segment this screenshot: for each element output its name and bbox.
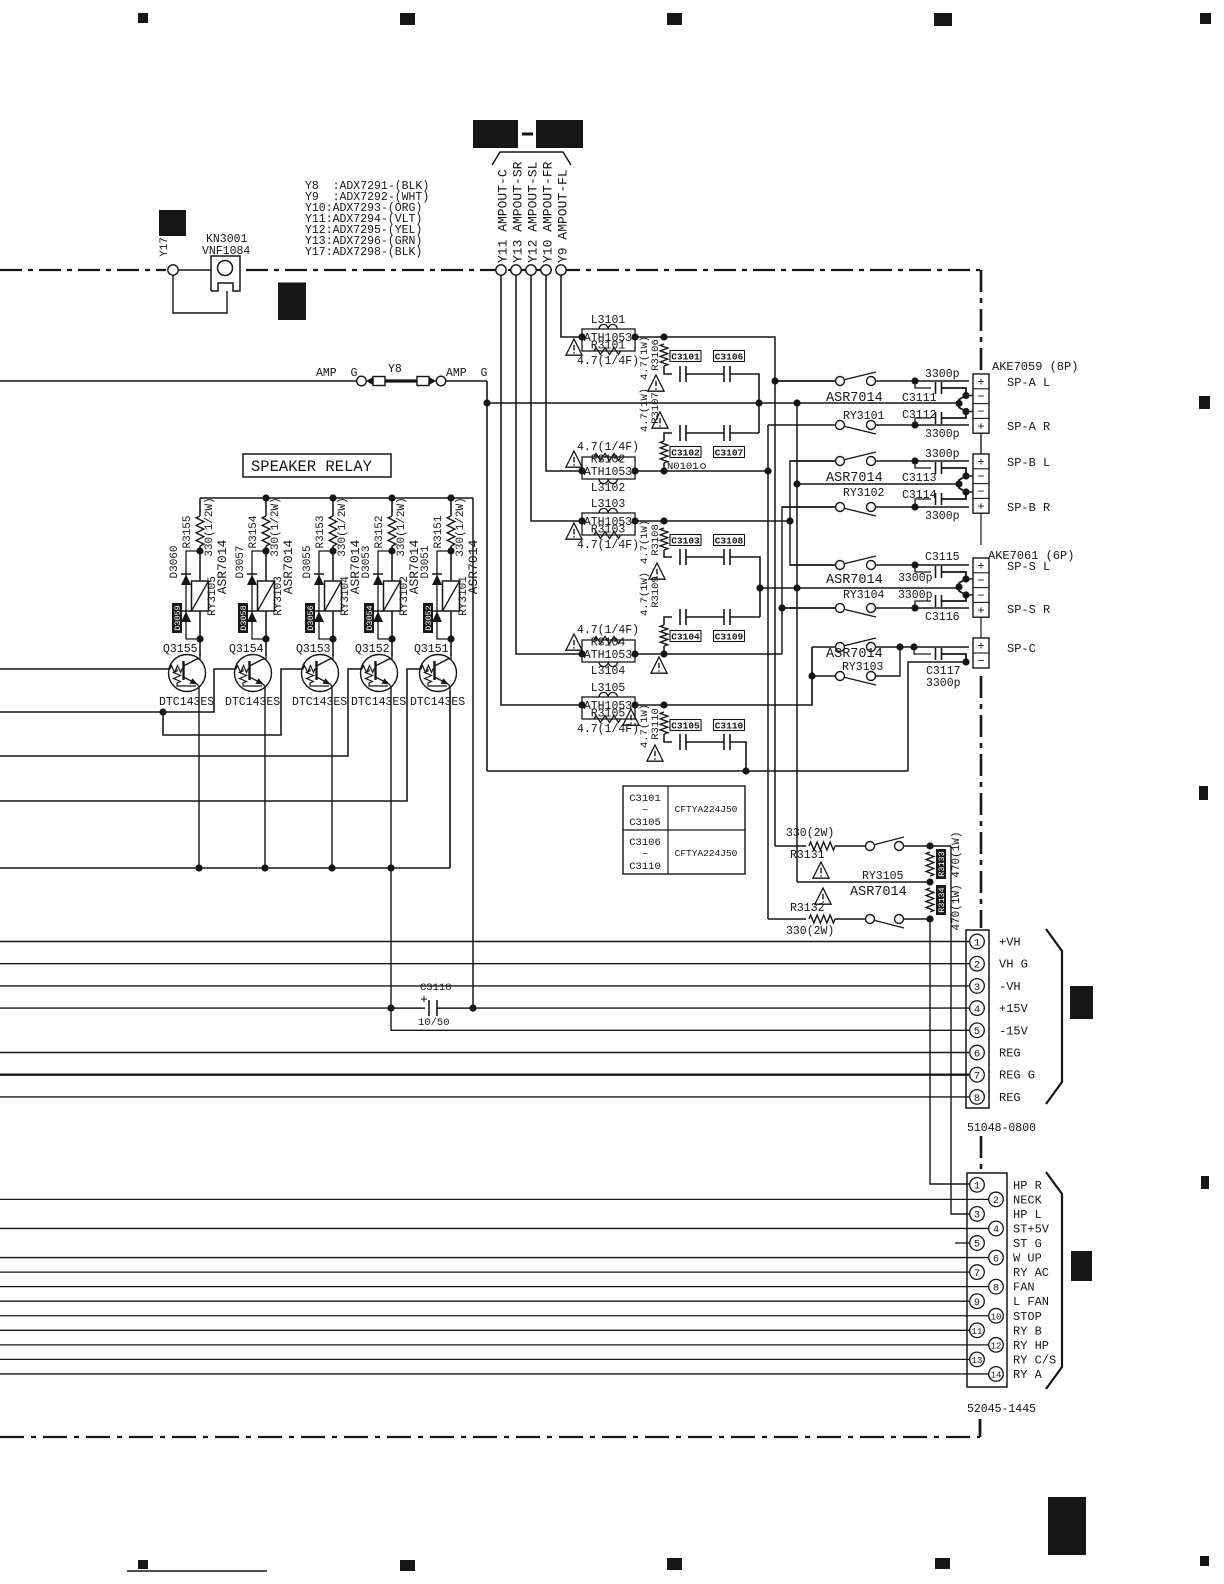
wire coil to collector Q3154	[265, 611, 267, 656]
registration mark bottom 4	[935, 1558, 950, 1569]
svg-text:D3052: D3052	[424, 605, 434, 631]
svg-text:Y10 AMPOUT-FR: Y10 AMPOUT-FR	[541, 161, 556, 263]
svg-text:4: 4	[993, 1225, 999, 1236]
svg-text:Y17: Y17	[159, 237, 171, 257]
capacitor C3117 hook	[914, 647, 931, 654]
relay switch RY3104 SP-S L	[790, 556, 969, 570]
wire HP R bus down	[930, 919, 969, 1184]
relay coil RY3105	[192, 581, 209, 611]
svg-text:L3103: L3103	[591, 498, 626, 511]
hook capacitors C3115 C3116	[915, 565, 931, 572]
svg-text:~: ~	[642, 805, 648, 817]
wire VH G	[0, 963, 969, 965]
junction SP-B feed tap	[786, 517, 793, 524]
black box bottom right	[1048, 1497, 1086, 1555]
label R3134 inverse	[936, 885, 947, 915]
transistor Q3155 DTC143ES	[169, 655, 206, 692]
svg-text:C3105: C3105	[671, 720, 700, 731]
warning triangle combo 4	[566, 634, 582, 650]
svg-text:C3110: C3110	[715, 720, 744, 731]
registration mark right 3	[1201, 1176, 1209, 1189]
svg-text:11: 11	[972, 1327, 983, 1337]
junction relay common SP-S x797	[793, 584, 800, 591]
black box right B	[1071, 1251, 1092, 1281]
transistor Q3153 DTC143ES	[302, 655, 339, 692]
wire STOP	[0, 1315, 989, 1317]
svg-text:C3113: C3113	[902, 472, 937, 485]
svg-text:C3108: C3108	[715, 535, 744, 546]
svg-text:AMP G: AMP G	[446, 367, 488, 380]
svg-text:−: −	[977, 485, 984, 499]
svg-text:C3106: C3106	[629, 837, 661, 849]
junction base branch	[159, 708, 166, 715]
junction R3152 bottom	[388, 547, 395, 554]
svg-text:3300p: 3300p	[925, 368, 960, 381]
wire R3109 to caps	[664, 617, 672, 625]
node right combo 2	[631, 467, 638, 474]
resistor R3110 4.7(1W)	[660, 712, 668, 734]
pin 4 circle 52045	[989, 1221, 1004, 1236]
wire AMPOUT drop 531	[531, 275, 582, 521]
svg-text:1: 1	[974, 1182, 980, 1193]
pin 7 circle 51048	[970, 1067, 985, 1082]
warning triangle R3132	[815, 888, 831, 904]
diode D3056	[314, 611, 324, 622]
registration mark bottom 1	[138, 1560, 148, 1569]
wire AMP G from left edge	[0, 380, 357, 382]
diode D3058	[247, 611, 257, 622]
wire base Q3151	[0, 669, 421, 801]
junction R3134 bottom	[926, 915, 933, 922]
svg-text:D3051: D3051	[420, 545, 432, 578]
svg-text:REG: REG	[999, 1047, 1021, 1061]
warning triangle combo 1	[566, 339, 582, 355]
pin 12 circle 52045	[989, 1338, 1004, 1353]
svg-text:C3112: C3112	[902, 409, 937, 422]
capacitor C3106	[724, 366, 730, 382]
svg-text:13: 13	[972, 1356, 983, 1366]
wire N0101 to SP-A R and R3132	[767, 425, 769, 471]
transistor Q3154 DTC143ES	[235, 655, 272, 692]
label R3133 inverse	[936, 849, 947, 879]
wire W UP	[0, 1257, 989, 1259]
svg-text:SP-B L: SP-B L	[1007, 456, 1050, 470]
wire R3106 to caps	[664, 366, 672, 374]
svg-text:Q3153: Q3153	[296, 643, 331, 656]
svg-text:−: −	[977, 390, 984, 404]
wire connector link S-C	[980, 617, 982, 638]
svg-text:330(2W): 330(2W)	[786, 827, 834, 840]
svg-text:DTC143ES: DTC143ES	[410, 696, 465, 709]
junction R3154 bottom	[262, 547, 269, 554]
svg-text:3: 3	[974, 982, 980, 994]
border right segment 2	[980, 676, 983, 928]
node circle AMP G left	[357, 376, 367, 386]
svg-text:W UP: W UP	[1013, 1252, 1042, 1266]
warning triangle R3131	[813, 862, 829, 878]
capacitor C3108	[724, 549, 730, 565]
wire collector stub Q3155	[199, 654, 201, 660]
pin 8 circle 52045	[989, 1279, 1004, 1294]
svg-text:R3110: R3110	[650, 708, 662, 740]
registration mark top 1	[138, 13, 148, 23]
relay switch RY3103 SP-C top	[812, 638, 969, 652]
connector pin circle Y9	[556, 265, 566, 275]
junction emitter common Q3153	[328, 864, 335, 871]
svg-text:+: +	[977, 375, 984, 389]
svg-text:C3116: C3116	[925, 611, 960, 624]
wire caps3 to common	[730, 557, 760, 617]
wire base Q3153	[163, 669, 303, 735]
svg-text:D3058: D3058	[239, 605, 249, 631]
wire diode branch D3051	[437, 551, 451, 639]
junction relay common SP-B x797	[793, 480, 800, 487]
wire AMPOUT drop 501	[501, 275, 582, 705]
hook capacitors C3113 C3114	[915, 461, 931, 468]
junction C3118 right	[469, 1005, 476, 1012]
junction R3153 bottom	[329, 547, 336, 554]
registration mark right 1	[1199, 396, 1210, 409]
resistor R3132 330(2W)	[809, 915, 835, 923]
part KN3001 circle	[218, 261, 233, 276]
svg-text:AMP G: AMP G	[316, 367, 358, 380]
relay switch RY3103 SP-C bottom	[812, 647, 900, 685]
registration mark top 3	[667, 13, 682, 25]
resistor R3153 330(1/2W)	[329, 516, 337, 546]
svg-text:ASR7014: ASR7014	[826, 573, 883, 588]
border right segment 3	[980, 1136, 983, 1171]
bottom left rule	[127, 1570, 267, 1572]
svg-text:L3105: L3105	[591, 682, 626, 695]
svg-text:10/50: 10/50	[418, 1017, 450, 1029]
wire relay rail to +15V net	[472, 498, 474, 1008]
junction R3109 tap	[660, 650, 667, 657]
warning triangle combo 2	[566, 451, 582, 467]
label D3054 inverse	[364, 603, 375, 633]
wire relay common SP-A	[487, 402, 959, 404]
svg-text:C3102: C3102	[671, 447, 700, 458]
wire collector stub Q3152	[391, 654, 393, 660]
wire connector link A-B	[980, 433, 982, 454]
wire emitter Q3153	[331, 687, 333, 868]
svg-text:D3053: D3053	[361, 545, 373, 578]
resistor R3108 4.7(1W)	[660, 528, 668, 550]
wire connector link B-S	[980, 513, 982, 545]
svg-text:C3104: C3104	[671, 631, 700, 642]
svg-text:RY3103: RY3103	[842, 661, 884, 674]
svg-text:CFTYA224J50: CFTYA224J50	[675, 848, 738, 859]
svg-text:CFTYA224J50: CFTYA224J50	[675, 804, 738, 815]
junction collector Q3152	[388, 635, 395, 642]
table capacitor values	[623, 786, 745, 874]
wire combo4 output	[635, 653, 782, 655]
wire R3109 node lead	[663, 646, 665, 654]
wire diode branch D3053	[378, 551, 392, 639]
svg-text:4.7(1/4F): 4.7(1/4F)	[577, 355, 639, 368]
relay coil RY3102	[384, 581, 401, 611]
svg-text:R3101: R3101	[591, 340, 626, 353]
connector pin circle Y10	[541, 265, 551, 275]
svg-text:−: −	[977, 470, 984, 484]
relay switch RY3102 SP-B R	[782, 503, 969, 517]
junction SP-C out 2	[910, 643, 917, 650]
wire base Q3152	[0, 669, 362, 756]
svg-text:10: 10	[991, 1312, 1002, 1322]
junction N0101	[764, 467, 771, 474]
relay switch RY3105 top	[866, 837, 952, 851]
black box mid-left	[278, 283, 306, 321]
transistor Q3152 DTC143ES	[361, 655, 398, 692]
border bottom	[0, 1436, 980, 1438]
svg-text:Y17:ADX7298-(BLK): Y17:ADX7298-(BLK)	[305, 246, 422, 259]
svg-text:D3059: D3059	[173, 605, 183, 631]
label D3058 inverse	[238, 603, 249, 633]
wire collector stub Q3154	[265, 654, 267, 660]
capacitor C3110	[724, 734, 730, 750]
wire C3118 left lead	[391, 1007, 425, 1009]
resistor R3107 4.7(1W)	[660, 441, 668, 463]
black box connector name right	[536, 120, 583, 148]
svg-text:ATH1053: ATH1053	[584, 466, 632, 479]
wire Y17 circle to part	[178, 269, 212, 271]
wire SP-B R feed	[782, 507, 836, 654]
wire R3131 to switch	[835, 845, 866, 847]
junction SP-B R cap tap	[911, 503, 918, 510]
diode D3054	[373, 611, 383, 622]
svg-text:SP-B R: SP-B R	[1007, 501, 1050, 515]
resistor R3106 4.7(1W)	[660, 344, 668, 366]
svg-text:ASR7014: ASR7014	[466, 539, 481, 594]
svg-text:D3056: D3056	[306, 605, 316, 631]
wire R3152 to coil	[391, 546, 393, 581]
wire relay common SP-B	[797, 483, 959, 485]
junction SP-C out 1	[896, 643, 903, 650]
label C3102 box	[670, 447, 701, 459]
node left combo 4	[578, 650, 585, 657]
wire R3107 node lead	[663, 463, 665, 471]
wire relay common vertical x797	[796, 403, 798, 882]
warning triangle R3106	[648, 375, 664, 391]
wire between C3105 C3110	[686, 741, 724, 743]
wire REG	[0, 1052, 969, 1054]
border right segment 1	[980, 270, 983, 372]
wire caps5 to SPC return	[730, 742, 746, 771]
capacitor C3105	[680, 734, 686, 750]
svg-text:+: +	[977, 420, 984, 434]
svg-text:52045-1445: 52045-1445	[967, 1403, 1036, 1416]
svg-text:RY3101: RY3101	[843, 410, 885, 423]
resistor R3131 330(2W)	[809, 842, 835, 850]
wire coil to collector Q3152	[391, 611, 393, 656]
svg-text:R3132: R3132	[790, 902, 825, 915]
svg-text:-VH: -VH	[999, 980, 1021, 994]
svg-text:−: −	[977, 574, 984, 588]
svg-text:C3110: C3110	[629, 861, 661, 873]
junction C3118 left	[387, 1005, 394, 1012]
pin 10 circle 52045	[989, 1308, 1004, 1323]
wire emitter Q3152	[390, 687, 392, 1008]
pin 8 circle 51048	[970, 1090, 985, 1105]
wire caps4 to common	[730, 616, 760, 618]
svg-text:-15V: -15V	[999, 1024, 1029, 1038]
svg-text:REG G: REG G	[999, 1069, 1035, 1083]
capacitor C3118 10/50	[428, 1000, 430, 1016]
registration mark bottom 5	[1200, 1556, 1209, 1566]
transistor Q3151 DTC143ES	[420, 655, 457, 692]
svg-text:−: −	[977, 405, 984, 419]
label C3104 box	[670, 631, 701, 643]
svg-text:R3131: R3131	[790, 849, 825, 862]
junction R3110 tap	[660, 701, 667, 708]
wire emitter common	[0, 867, 450, 869]
connector 51048-0800 box	[966, 930, 989, 1108]
wire R3131 line to HP L drop	[951, 846, 969, 1214]
wire L FAN	[0, 1300, 970, 1302]
junction caps common SP-S	[756, 584, 763, 591]
label C3101 box	[670, 351, 701, 363]
svg-text:Q3155: Q3155	[163, 643, 198, 656]
wire AMP G vertical	[486, 381, 488, 771]
wire Y17 to part	[173, 275, 227, 313]
wire ST+5V	[0, 1227, 989, 1229]
svg-text:R3153: R3153	[315, 515, 327, 548]
svg-text:C3118: C3118	[420, 982, 452, 994]
diode D3060	[181, 574, 191, 585]
svg-text:330(2W): 330(2W)	[786, 925, 834, 938]
wire RY AC	[0, 1271, 970, 1273]
svg-text:3300p: 3300p	[898, 589, 933, 602]
warning triangle R3108	[649, 563, 665, 579]
wire AMPOUT drop 546	[546, 275, 582, 471]
svg-text:−: −	[977, 655, 984, 669]
wire R3132 to switch	[835, 918, 866, 920]
registration mark top 4	[934, 13, 952, 26]
svg-text:FAN: FAN	[1013, 1281, 1035, 1295]
inductor L3101 ATH1053 / resistor R3101 parallel	[582, 324, 635, 354]
svg-text:Y9 AMPOUT-FL: Y9 AMPOUT-FL	[556, 169, 571, 263]
wire SPC return bottom	[487, 770, 908, 772]
svg-text:R3151: R3151	[433, 515, 445, 548]
svg-text:2: 2	[993, 1196, 999, 1207]
pin 3 circle 52045	[970, 1207, 985, 1222]
svg-text:C3115: C3115	[925, 551, 960, 564]
junction emitter common Q3155	[195, 864, 202, 871]
svg-text:+15V: +15V	[999, 1002, 1029, 1016]
svg-text:N0101: N0101	[667, 461, 699, 473]
junction rail R3152	[388, 494, 395, 501]
resistor R3133 470(1W)	[926, 852, 934, 876]
svg-text:R3104: R3104	[591, 637, 626, 650]
wire -15V from C3118	[391, 1008, 969, 1030]
junction collector Q3154	[262, 635, 269, 642]
svg-text:STOP: STOP	[1013, 1310, 1042, 1324]
wire between C3102 C3107	[686, 432, 724, 434]
resistor R3134 470(1W)	[926, 888, 934, 912]
pin 3 circle 51048	[970, 979, 985, 994]
capacitor C3104	[680, 609, 686, 625]
svg-text:R3105: R3105	[591, 708, 626, 721]
junction SP-A L cap tap	[911, 377, 918, 384]
pin 6 circle 51048	[970, 1045, 985, 1060]
wire coil to collector Q3153	[332, 611, 334, 656]
svg-text:R3108: R3108	[650, 524, 662, 556]
wire R3152 top lead	[391, 498, 393, 516]
junction emitter common Q3154	[261, 864, 268, 871]
svg-text:ASR7014: ASR7014	[826, 647, 883, 662]
black box connector name left	[473, 120, 518, 148]
svg-text:+: +	[977, 455, 984, 469]
svg-text:RY AC: RY AC	[1013, 1266, 1049, 1280]
junction collector Q3153	[329, 635, 336, 642]
svg-text:SP-A R: SP-A R	[1007, 420, 1050, 434]
pin 9 circle 52045	[970, 1294, 985, 1309]
junction SP-B L cap tap	[911, 457, 918, 464]
svg-text:DTC143ES: DTC143ES	[292, 696, 347, 709]
junction rail R3151	[447, 494, 454, 501]
wire FL to R3131	[775, 845, 806, 847]
wire R3155 top lead	[199, 498, 201, 516]
connector Y8 symbol	[366, 377, 436, 386]
wire combo5 output	[635, 647, 812, 705]
wire NECK	[0, 1198, 989, 1200]
registration mark right 2	[1199, 786, 1208, 800]
wire +15V left	[0, 1007, 388, 1009]
junction R3106 tap	[660, 333, 667, 340]
wire +15V right	[473, 1007, 969, 1009]
svg-text:Q3151: Q3151	[414, 643, 449, 656]
warning triangle R3107	[652, 412, 668, 428]
wire SP-S R feed	[782, 607, 836, 609]
svg-text:Y8: Y8	[388, 363, 402, 376]
svg-text:14: 14	[991, 1371, 1002, 1381]
svg-text:+: +	[977, 640, 984, 654]
wire ST G stub	[955, 1242, 970, 1244]
black box below border	[278, 284, 306, 320]
wire diode branch D3060	[186, 551, 200, 639]
resistor R3155 330(1/2W)	[196, 516, 204, 546]
wire base Q3155	[0, 668, 169, 670]
label C3105 box	[670, 720, 701, 732]
node circle AMP G right	[436, 376, 446, 386]
wire relay common SP-S	[760, 587, 959, 589]
node right combo 4	[631, 650, 638, 657]
wire REG G	[0, 1073, 969, 1075]
svg-text:D3055: D3055	[302, 545, 314, 578]
part KN3001 VNF1084 body	[211, 256, 240, 291]
connector pin circle Y12	[526, 265, 536, 275]
svg-text:8: 8	[974, 1093, 980, 1105]
svg-text:7: 7	[974, 1071, 980, 1083]
resistor R3152 330(1/2W)	[388, 516, 396, 546]
wire base Q3154	[0, 669, 236, 712]
svg-text:L FAN: L FAN	[1013, 1295, 1049, 1309]
label D3052 inverse	[423, 603, 434, 633]
svg-text:VH G: VH G	[999, 958, 1028, 972]
svg-text:3300p: 3300p	[925, 428, 960, 441]
svg-text:+: +	[977, 559, 984, 573]
hook capacitors C3111 C3112	[915, 381, 931, 388]
black box label Y17 area	[159, 210, 186, 236]
capacitor C3102	[680, 425, 686, 441]
svg-text:AKE7059 (8P): AKE7059 (8P)	[992, 360, 1078, 374]
svg-text:R3103: R3103	[591, 524, 626, 537]
border right segment 4	[979, 1419, 982, 1437]
svg-text:NECK: NECK	[1013, 1193, 1043, 1207]
registration mark top 5	[1200, 13, 1211, 24]
wire FAN	[0, 1286, 989, 1288]
pin 7 circle 52045	[970, 1265, 985, 1280]
connector AKE7059 SP-A cells	[973, 374, 989, 433]
